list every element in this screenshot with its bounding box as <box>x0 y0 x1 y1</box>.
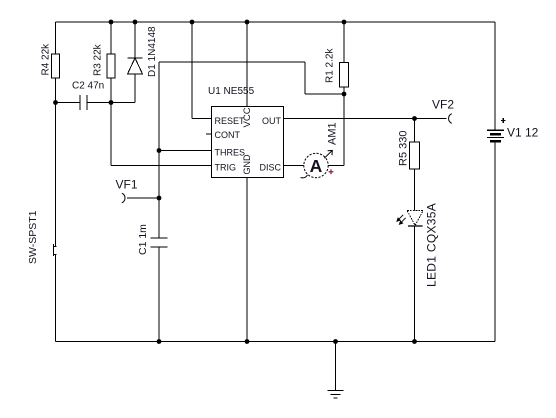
svg-text:DISC: DISC <box>259 163 281 173</box>
svg-text:V1 12: V1 12 <box>507 126 539 140</box>
svg-text:VF2: VF2 <box>432 98 454 112</box>
svg-text:R5 330: R5 330 <box>398 131 410 166</box>
svg-text:A: A <box>310 156 323 176</box>
svg-text:VF1: VF1 <box>116 178 138 192</box>
svg-text:R4 22k: R4 22k <box>41 43 52 76</box>
svg-text:LED1 CQX35A: LED1 CQX35A <box>425 203 439 287</box>
svg-text:THRES: THRES <box>215 148 246 158</box>
svg-text:C1 1m: C1 1m <box>137 224 149 255</box>
svg-text:R3 22k: R3 22k <box>93 43 104 76</box>
svg-text:CONT: CONT <box>215 130 241 140</box>
svg-text:SW-SPST1: SW-SPST1 <box>27 210 39 264</box>
svg-text:OUT: OUT <box>262 116 282 126</box>
svg-text:U1 NE555: U1 NE555 <box>208 86 255 97</box>
svg-text:AM1: AM1 <box>327 122 339 145</box>
svg-text:C2 47n: C2 47n <box>72 81 104 92</box>
svg-text:RESET: RESET <box>215 116 246 126</box>
svg-text:R1 2.2k: R1 2.2k <box>325 48 336 83</box>
svg-text:D1 1N4148: D1 1N4148 <box>147 26 158 77</box>
svg-text:TRIG: TRIG <box>215 163 237 173</box>
